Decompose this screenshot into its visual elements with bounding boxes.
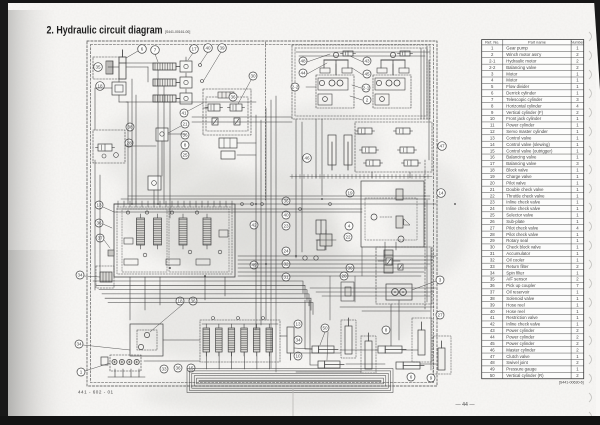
svg-text:26: 26: [490, 219, 495, 224]
balloon 25: [181, 151, 189, 159]
svg-text:46: 46: [304, 156, 310, 161]
svg-text:Telescopic cylinder: Telescopic cylinder: [506, 97, 543, 102]
svg-text:Pick up coupler: Pick up coupler: [506, 283, 536, 288]
winch brake gantry (2): [377, 52, 409, 75]
svg-text:18: 18: [490, 168, 495, 173]
svg-text:Part name: Part name: [528, 40, 546, 45]
outrigger check row: [202, 316, 278, 324]
svg-text:36: 36: [490, 283, 495, 288]
svg-text:47: 47: [439, 144, 445, 149]
pilot valve 20 box: [341, 282, 354, 301]
balancing valve box 36: [203, 89, 251, 135]
winch circuit dashed box: [292, 45, 430, 119]
svg-text:Clutch valve: Clutch valve: [506, 354, 530, 359]
svg-text:12: 12: [490, 129, 495, 134]
svg-text:36: 36: [283, 199, 289, 204]
svg-text:41: 41: [490, 315, 495, 320]
outrigger spool 4: [241, 324, 248, 356]
winch motor assy 2 (2): [373, 75, 411, 108]
clutch valve cluster 47 dashed box: [355, 122, 432, 172]
svg-text:2-2: 2-2: [292, 85, 299, 90]
svg-text:35: 35: [95, 65, 101, 70]
valve in box 36 right: [228, 104, 245, 111]
svg-text:38: 38: [490, 296, 495, 301]
svg-text:30: 30: [250, 74, 256, 79]
svg-text:Rotary seal: Rotary seal: [506, 238, 528, 243]
svg-text:34: 34: [295, 338, 301, 343]
svg-text:13: 13: [295, 322, 301, 327]
svg-text:40: 40: [490, 309, 495, 314]
horizontal cylinder 8b: [396, 362, 424, 369]
fold line: [292, 388, 294, 416]
svg-text:19: 19: [347, 191, 353, 196]
front jack cylinder 10: [287, 327, 294, 360]
balloon 18b: [176, 297, 184, 305]
svg-text:[S441-00630-6]: [S441-00630-6]: [559, 381, 584, 385]
svg-text:20: 20: [490, 180, 495, 185]
balloon 20: [340, 272, 348, 280]
check nodes right of valves: [199, 64, 204, 83]
svg-text:2-1: 2-1: [363, 86, 370, 91]
svg-text:Restriction valve: Restriction valve: [506, 315, 538, 320]
svg-text:25: 25: [182, 153, 188, 158]
balloon 43: [363, 57, 371, 65]
page border bottom: [0, 416, 600, 425]
svg-text:2. Hydraulic circuit diagram: 2. Hydraulic circuit diagram: [47, 25, 163, 37]
svg-text:Inline check valve: Inline check valve: [506, 322, 541, 327]
vertical cylinder 27b: [438, 341, 445, 370]
svg-text:Pilot check valve: Pilot check valve: [506, 225, 539, 230]
wire network: [93, 42, 436, 393]
svg-text:Motor: Motor: [506, 71, 518, 76]
balloon 36d: [95, 219, 103, 227]
svg-text:Motor: Motor: [506, 78, 518, 83]
flow divider 5: [219, 138, 237, 159]
svg-text:43: 43: [364, 59, 370, 64]
svg-text:Vertical cylinder (F): Vertical cylinder (F): [506, 110, 543, 115]
balloon 13b: [294, 320, 302, 328]
balloon 36 top: [229, 93, 237, 101]
svg-text:Control valve: Control valve: [506, 135, 532, 140]
scan shading left margin: [8, 10, 60, 422]
balloon 34b: [294, 336, 302, 344]
svg-text:31: 31: [283, 275, 289, 280]
balloon 40 col: [282, 211, 290, 219]
control valve internal reliefs: [124, 211, 228, 265]
svg-text:32: 32: [490, 257, 495, 262]
pickup coupler row top: [218, 92, 234, 98]
svg-text:17: 17: [191, 47, 197, 52]
balloon 18: [96, 82, 105, 91]
svg-text:Hose reel: Hose reel: [506, 309, 524, 314]
svg-text:Servo master cylinder: Servo master cylinder: [506, 129, 548, 134]
svg-text:Return filter: Return filter: [506, 264, 529, 269]
svg-text:Balancing valve: Balancing valve: [506, 155, 537, 160]
balancing valve 17 (3): [180, 89, 192, 104]
power valve: [356, 128, 375, 134]
balloon 27: [436, 311, 444, 319]
balloon 8 mid: [181, 141, 189, 149]
solenoid valve 38 box: [93, 130, 125, 163]
svg-text:40: 40: [283, 213, 289, 218]
power valve: [402, 160, 421, 166]
slewing control valve 14 box: [361, 181, 424, 247]
control valve spool 4: [203, 214, 211, 249]
svg-text:33: 33: [161, 367, 167, 372]
A/F sensor 35 box: [93, 57, 125, 79]
svg-text:6: 6: [410, 375, 413, 380]
svg-text:Sub-plate: Sub-plate: [506, 219, 525, 224]
svg-text:2-2: 2-2: [489, 65, 496, 70]
balloon 36 col: [282, 197, 290, 205]
balloon 1: [77, 368, 85, 376]
svg-text:18: 18: [177, 299, 183, 304]
pump suction lines: [108, 369, 145, 377]
svg-text:[S441-00161-00]: [S441-00161-00]: [165, 30, 190, 34]
svg-text:23: 23: [490, 200, 495, 205]
leaders: [150, 305, 182, 332]
svg-text:48: 48: [300, 59, 306, 64]
spin filter 34: [96, 266, 114, 288]
svg-text:39: 39: [219, 46, 225, 51]
svg-text:50: 50: [322, 326, 328, 331]
svg-text:39: 39: [490, 302, 495, 307]
horizontal cylinder 50a: [312, 346, 338, 353]
balloon 34: [75, 340, 83, 348]
svg-text:11: 11: [490, 123, 495, 128]
balloon 44: [299, 69, 307, 77]
svg-text:Check block valve: Check block valve: [506, 245, 541, 250]
svg-text:44: 44: [490, 335, 495, 340]
gear pump 1: [101, 355, 141, 371]
svg-text:— 44 —: — 44 —: [455, 402, 475, 408]
svg-text:Number: Number: [571, 41, 585, 45]
telescopic cylinder 7 (1): [153, 63, 180, 70]
svg-text:36: 36: [175, 366, 181, 371]
svg-text:441 - 602 - 01: 441 - 602 - 01: [78, 390, 114, 395]
svg-text:Pilot check valve: Pilot check valve: [506, 232, 539, 237]
svg-text:34: 34: [77, 273, 83, 278]
svg-text:16: 16: [490, 155, 495, 160]
balloon 4: [345, 222, 353, 230]
small relief pair: [212, 118, 218, 125]
wire 41 leader: [188, 103, 203, 111]
balloon 2-2: [291, 83, 299, 91]
svg-text:22: 22: [345, 235, 351, 240]
winch leader wires: [306, 54, 363, 100]
charge valve 19: [148, 176, 161, 190]
wire balloon6 leader: [126, 51, 138, 58]
svg-text:48: 48: [490, 360, 495, 365]
balloon 36f: [174, 364, 182, 372]
wire balloon34 leader: [83, 345, 130, 350]
svg-text:45: 45: [490, 341, 495, 346]
svg-text:36: 36: [190, 299, 196, 304]
balloon 34 left: [76, 271, 84, 279]
balloon 48: [299, 57, 307, 65]
page border left: [0, 0, 8, 425]
svg-text:13: 13: [96, 203, 102, 208]
balloon 28: [125, 139, 133, 147]
wire balloon1 leader: [85, 363, 110, 371]
wire balloon30 leader: [238, 80, 251, 104]
control valve spool 3: [179, 214, 187, 249]
svg-text:30: 30: [490, 245, 495, 250]
motor 3: [386, 284, 412, 300]
motor 3 dashed box: [376, 247, 432, 304]
svg-text:Power cylinder: Power cylinder: [506, 328, 535, 333]
svg-text:17: 17: [490, 161, 495, 166]
svg-text:25: 25: [490, 213, 495, 218]
valve in box 36 left: [206, 104, 223, 111]
balloon 36c: [346, 264, 354, 272]
svg-text:Swivel joint: Swivel joint: [506, 360, 528, 365]
svg-text:22: 22: [490, 193, 495, 198]
svg-text:7: 7: [154, 48, 157, 53]
svg-text:Accumulator: Accumulator: [506, 251, 530, 256]
horizontal cylinder 8a: [378, 346, 406, 353]
balloon 8b: [382, 326, 390, 334]
svg-text:43: 43: [490, 328, 495, 333]
svg-text:8: 8: [184, 143, 187, 148]
svg-text:Horizontal cylinder: Horizontal cylinder: [506, 103, 542, 108]
balloon 33: [160, 365, 168, 373]
svg-text:47: 47: [490, 354, 495, 359]
svg-text:34: 34: [490, 270, 495, 275]
svg-text:2-1: 2-1: [489, 58, 496, 63]
svg-text:Master cylinder: Master cylinder: [506, 347, 536, 352]
svg-text:3: 3: [439, 278, 442, 283]
svg-text:33: 33: [490, 264, 495, 269]
svg-text:27: 27: [437, 313, 443, 318]
svg-text:40: 40: [205, 46, 211, 51]
balloon 38: [126, 123, 134, 131]
balloon 6: [138, 45, 147, 54]
relief in motor3 box: [386, 258, 392, 265]
balloon 39: [218, 44, 227, 53]
balloon 37: [96, 234, 104, 242]
wire 21 leader: [168, 126, 181, 133]
svg-text:Gear pump: Gear pump: [506, 46, 528, 51]
balloon 45: [363, 70, 371, 78]
balloon 2-1: [362, 84, 370, 92]
balloon 9: [427, 374, 435, 382]
svg-text:Inline check valve: Inline check valve: [506, 200, 541, 205]
wire 34 leader: [84, 276, 100, 277]
svg-text:42: 42: [490, 322, 495, 327]
wire links lower right: [271, 247, 436, 372]
svg-text:21: 21: [182, 122, 188, 127]
power valve: [364, 160, 383, 166]
svg-text:50: 50: [490, 373, 495, 378]
svg-text:24: 24: [490, 206, 495, 211]
balloon 32 col: [282, 260, 290, 268]
balloon 3: [436, 276, 444, 284]
outrigger spool 3: [228, 324, 235, 356]
svg-text:Flow divider: Flow divider: [506, 84, 529, 89]
svg-text:2: 2: [366, 98, 369, 103]
svg-text:31: 31: [490, 251, 495, 256]
svg-text:14: 14: [438, 191, 444, 196]
outrigger control valve 15: [200, 320, 280, 362]
oil cooler small block: [108, 250, 114, 256]
outrigger spool 2: [216, 324, 223, 356]
leader wires top: [155, 52, 221, 80]
leaders left: [103, 207, 114, 248]
master cylinders 46: [328, 135, 352, 170]
slewing valve symbols: [371, 189, 410, 242]
pilot check dashed boxes 27: [412, 318, 451, 374]
sub-plate valve stack 26: [378, 250, 400, 273]
solenoid valve 38: [96, 144, 115, 151]
power valve: [394, 128, 413, 134]
balloon 47: [438, 142, 447, 151]
svg-text:8: 8: [385, 328, 388, 333]
svg-text:Control valve (slewing): Control valve (slewing): [506, 142, 550, 147]
svg-text:A/F sensor: A/F sensor: [506, 277, 527, 282]
pick up coupler block 36: [130, 324, 163, 356]
balloon 41: [180, 109, 188, 117]
balloon 14: [437, 189, 446, 198]
svg-text:27: 27: [490, 225, 495, 230]
svg-text:Hose reel: Hose reel: [506, 302, 524, 307]
control valve spool 1: [137, 214, 145, 249]
balloon 7: [151, 46, 160, 55]
balloon 42: [250, 221, 258, 229]
winch brake gantry (1): [320, 52, 352, 75]
svg-text:Solenoid valve: Solenoid valve: [506, 296, 535, 301]
balloon 46b: [303, 154, 312, 163]
svg-text:10: 10: [295, 354, 301, 359]
control valve spool 2: [154, 214, 162, 249]
balloon 6b: [407, 373, 415, 381]
derrick cylinder 6: [119, 50, 126, 79]
svg-text:Block valve: Block valve: [506, 168, 528, 173]
svg-text:9: 9: [430, 376, 433, 381]
svg-text:46: 46: [490, 347, 495, 352]
control valve top ports: [118, 201, 232, 207]
power valve: [398, 147, 417, 153]
svg-text:13: 13: [490, 135, 495, 140]
svg-text:Front jack cylinder: Front jack cylinder: [506, 116, 541, 121]
svg-text:36: 36: [182, 133, 188, 138]
svg-text:44: 44: [300, 71, 306, 76]
balloon 17: [190, 45, 199, 54]
page corner wedge top-right: [594, 0, 600, 90]
diagram outer dashed border: [87, 41, 437, 386]
coupler circles on bus: [241, 203, 332, 211]
leaders 50: [320, 332, 328, 360]
svg-text:Hydraulic motor: Hydraulic motor: [506, 58, 537, 63]
selector/accumulator small symbols: [303, 220, 326, 260]
svg-text:Oil reservoir: Oil reservoir: [506, 290, 530, 295]
vertical cylinder mid-a: [341, 318, 356, 358]
svg-text:Power cylinder: Power cylinder: [506, 341, 535, 346]
balancing valve 17 (1): [180, 57, 192, 72]
scan mottle: [100, 105, 470, 413]
svg-text:4: 4: [348, 224, 351, 229]
balloon 30: [249, 72, 257, 80]
svg-text:10: 10: [490, 116, 495, 121]
svg-text:Power cylinder: Power cylinder: [506, 123, 535, 128]
outrigger spool 5: [253, 324, 260, 356]
svg-text:Balancing valve: Balancing valve: [506, 65, 537, 70]
balloon 36 mid: [181, 131, 189, 139]
svg-text:Charge valve: Charge valve: [506, 174, 532, 179]
page border top: [0, 0, 600, 3]
balancing valve 17 (2): [180, 73, 192, 88]
spiral binding marks: [589, 32, 592, 421]
svg-text:Spin filter: Spin filter: [506, 270, 524, 275]
svg-text:Oil cooler: Oil cooler: [506, 257, 525, 262]
svg-text:24: 24: [283, 249, 289, 254]
balloon 24 col: [282, 247, 290, 255]
throttle check valve 22 symbol: [316, 230, 336, 250]
svg-text:21: 21: [490, 187, 495, 192]
svg-text:Ref. No.: Ref. No.: [485, 40, 499, 45]
balloon 40: [204, 44, 213, 53]
balloon 22: [344, 233, 352, 241]
outrigger spool 6: [266, 324, 273, 356]
svg-text:Pilot valve: Pilot valve: [506, 180, 526, 185]
rotary seal 29 tick line: [290, 175, 432, 179]
svg-text:Power cylinder: Power cylinder: [506, 335, 535, 340]
svg-text:6: 6: [141, 47, 144, 52]
svg-text:41: 41: [181, 111, 187, 116]
svg-text:36: 36: [96, 221, 102, 226]
svg-text:1: 1: [80, 370, 83, 375]
pilot check 28: [102, 153, 118, 158]
parts table: [482, 40, 585, 379]
balloon 21: [181, 120, 189, 128]
balloon 31 col: [282, 273, 290, 281]
telescopic cylinder 7 (3): [153, 95, 180, 102]
control valve sections: [122, 209, 229, 272]
svg-text:28: 28: [490, 232, 495, 237]
balloon 35 (A/F sensor): [94, 63, 103, 72]
control valve 13 body: [114, 204, 235, 277]
balloon 13: [95, 201, 103, 209]
double check valve 21: [156, 128, 168, 141]
balloon 19: [346, 189, 354, 197]
svg-text:34: 34: [76, 342, 82, 347]
balloon 23 col: [282, 222, 290, 230]
svg-text:Selector valve: Selector valve: [506, 213, 534, 218]
svg-text:37: 37: [490, 290, 495, 295]
balloon 36e: [189, 297, 197, 305]
wire junctions: [131, 198, 456, 277]
svg-text:29: 29: [490, 238, 495, 243]
svg-text:15: 15: [490, 148, 495, 153]
hose reel valve (1): [341, 51, 356, 56]
svg-text:Throttle check valve: Throttle check valve: [506, 193, 545, 198]
svg-text:Balancing valve: Balancing valve: [506, 161, 537, 166]
svg-text:Double check valve: Double check valve: [506, 187, 544, 192]
wire balloon3 leader: [412, 281, 436, 290]
vertical cylinder 27a: [418, 322, 425, 355]
svg-text:Winch motor ass'y: Winch motor ass'y: [506, 52, 542, 57]
outrigger spool 1: [203, 324, 210, 356]
svg-text:Derrick cylinder: Derrick cylinder: [506, 91, 536, 96]
balloon 2: [363, 96, 371, 104]
svg-text:35: 35: [490, 277, 495, 282]
balloon 15: [187, 364, 195, 372]
svg-text:28: 28: [126, 141, 132, 146]
svg-text:Inline check valve: Inline check valve: [506, 206, 541, 211]
svg-text:Vertical cylinder (R): Vertical cylinder (R): [506, 373, 544, 378]
winch motor assy 2 (1): [316, 75, 354, 108]
svg-text:45: 45: [364, 72, 370, 77]
